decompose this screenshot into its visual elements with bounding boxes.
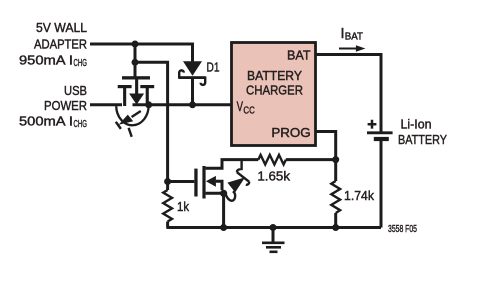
svg-text:CHG: CHG: [74, 58, 87, 69]
svg-text:CC: CC: [243, 105, 255, 116]
svg-text:BAT: BAT: [345, 32, 364, 43]
svg-text:PROG: PROG: [271, 125, 310, 140]
svg-text:950mA I: 950mA I: [19, 52, 73, 67]
svg-text:3558 F05: 3558 F05: [388, 224, 417, 235]
svg-text:5V WALL: 5V WALL: [36, 20, 87, 35]
svg-text:CHARGER: CHARGER: [246, 83, 303, 98]
svg-text:POWER: POWER: [44, 98, 87, 113]
svg-text:BATTERY: BATTERY: [247, 68, 302, 83]
svg-text:D1: D1: [207, 60, 220, 75]
svg-text:1.65k: 1.65k: [257, 169, 290, 184]
svg-text:V: V: [237, 99, 243, 114]
svg-text:USB: USB: [64, 83, 87, 98]
svg-text:500mA I: 500mA I: [19, 114, 73, 129]
svg-text:1k: 1k: [177, 199, 189, 214]
svg-text:BAT: BAT: [287, 48, 311, 63]
svg-text:CHG: CHG: [74, 119, 87, 130]
svg-text:1.74k: 1.74k: [344, 188, 374, 203]
svg-text:Li-Ion: Li-Ion: [401, 116, 432, 131]
svg-text:ADAPTER: ADAPTER: [34, 36, 87, 51]
svg-text:BATTERY: BATTERY: [398, 132, 447, 147]
